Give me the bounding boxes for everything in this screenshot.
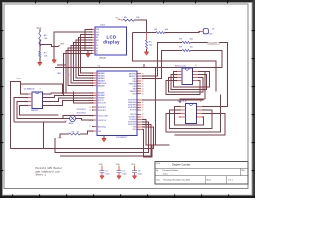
svg-text:<Doc>: <Doc> (163, 172, 169, 175)
svg-text:RB3/PGM: RB3/PGM (129, 83, 137, 85)
svg-text:RD3/PSP3: RD3/PSP3 (128, 122, 136, 124)
svg-text:VSS: VSS (98, 131, 101, 133)
svg-text:27: 27 (142, 110, 144, 112)
svg-text:100n: 100n (138, 174, 142, 176)
svg-text:35: 35 (142, 86, 144, 88)
svg-text:RD6/PSP6: RD6/PSP6 (128, 102, 136, 104)
svg-text:RC7/RX: RC7/RX (130, 110, 137, 112)
svg-text:X1: X1 (65, 121, 67, 123)
svg-text:D4: D4 (96, 45, 98, 47)
svg-text:D1: D1 (212, 28, 214, 30)
svg-text:33: 33 (142, 91, 144, 93)
svg-text:Molex(1,2,4): Molex(1,2,4) (175, 65, 186, 67)
svg-text:VDD: VDD (131, 164, 136, 166)
svg-text:RC0/T1: RC0/T1 (98, 100, 104, 102)
svg-text:VEE: VEE (96, 34, 99, 36)
svg-text:OSC1/CLKIN: OSC1/CLKIN (98, 115, 108, 117)
svg-text:RS: RS (96, 37, 98, 39)
svg-text:RD4/PSP4: RD4/PSP4 (128, 107, 136, 109)
svg-text:100n: 100n (105, 174, 109, 176)
svg-text:C1: C1 (105, 171, 107, 173)
svg-text:RB1: RB1 (133, 88, 136, 90)
svg-text:RB2: RB2 (133, 86, 136, 88)
svg-text:RD7/PSP7: RD7/PSP7 (128, 100, 136, 102)
svg-text:D5: D5 (96, 48, 98, 50)
svg-text:4MHz: 4MHz (69, 123, 74, 125)
svg-text:C3: C3 (138, 171, 140, 173)
svg-text:32: 32 (142, 93, 144, 95)
svg-text:U5 MAX232: U5 MAX232 (24, 88, 36, 91)
svg-text:E: E (96, 42, 97, 44)
svg-text:1 of 1: 1 of 1 (228, 179, 233, 181)
svg-text:Sheet 1: Sheet 1 (36, 174, 47, 177)
svg-text:4: 4 (177, 117, 178, 119)
svg-text:25: 25 (142, 117, 144, 119)
svg-text:RC1/CCP2: RC1/CCP2 (98, 103, 106, 105)
svg-text:D6: D6 (96, 50, 98, 52)
svg-text:Date:: Date: (156, 178, 161, 181)
svg-text:Degree Counter: Degree Counter (172, 163, 191, 167)
svg-text:13: 13 (89, 107, 91, 109)
svg-text:14: 14 (89, 110, 91, 112)
svg-text:RB0/INT: RB0/INT (130, 91, 136, 93)
svg-text:PIC16F877: PIC16F877 (116, 137, 128, 139)
svg-text:Sheet: Sheet (207, 178, 212, 181)
svg-text:RB5: RB5 (133, 78, 136, 80)
svg-text:display: display (103, 40, 120, 45)
svg-text:8: 8 (40, 89, 41, 91)
svg-text:Comm: Comm (16, 78, 22, 80)
svg-text:Sens (1,2): Sens (1,2) (178, 101, 188, 103)
svg-text:RC5/SDO: RC5/SDO (129, 117, 137, 119)
svg-text:17: 17 (89, 126, 91, 128)
svg-text:100n: 100n (122, 174, 126, 176)
svg-text:J3: J3 (200, 101, 202, 103)
svg-text:40: 40 (142, 73, 144, 75)
svg-text:37: 37 (142, 81, 144, 83)
svg-text:26: 26 (142, 114, 144, 116)
svg-text:Thursday, November 16, 2006: Thursday, November 16, 2006 (163, 180, 191, 182)
svg-text:By: By (156, 170, 158, 172)
svg-text:RC6/TX/CK: RC6/TX/CK (77, 113, 87, 115)
svg-text:RD5/PSP5: RD5/PSP5 (128, 105, 136, 107)
svg-text:29: 29 (142, 105, 144, 107)
svg-text:RC4/SDI: RC4/SDI (130, 119, 137, 121)
svg-text:D7: D7 (96, 53, 98, 55)
svg-text:36: 36 (142, 83, 144, 85)
svg-text:RB7/PGD: RB7/PGD (129, 73, 137, 75)
svg-text:VSS: VSS (96, 29, 99, 31)
svg-text:RB4: RB4 (133, 81, 136, 83)
svg-text:34: 34 (142, 88, 144, 90)
svg-text:RC7/RX/DT: RC7/RX/DT (77, 109, 87, 111)
svg-text:RB6/PGC: RB6/PGC (129, 76, 137, 78)
svg-text:30: 30 (142, 102, 144, 104)
svg-text:LCD1: LCD1 (100, 25, 106, 27)
svg-text:RC6/TX: RC6/TX (130, 114, 137, 116)
svg-text:VDD: VDD (99, 164, 104, 166)
svg-text:FILE:: FILE: (156, 163, 161, 165)
svg-text:J2: J2 (195, 65, 197, 67)
svg-text:VSS: VSS (133, 127, 136, 129)
svg-text:RD1/PSP1: RD1/PSP1 (98, 110, 106, 112)
svg-text:OSC2/CLK: OSC2/CLK (98, 120, 107, 122)
svg-text:28: 28 (142, 107, 144, 109)
svg-text:SER232: SER232 (31, 110, 38, 112)
svg-text:MCLR/Vpp: MCLR/Vpp (98, 126, 106, 128)
svg-text:RD2/PSP2: RD2/PSP2 (128, 124, 136, 126)
svg-text:LM016L: LM016L (99, 57, 107, 59)
svg-text:VDD: VDD (116, 164, 121, 166)
svg-text:Document Number: Document Number (163, 169, 179, 172)
svg-text:VCC: VCC (37, 28, 42, 30)
svg-text:RD0/PSP0: RD0/PSP0 (98, 107, 106, 109)
svg-text:C2: C2 (122, 171, 124, 173)
svg-text:RN1: RN1 (57, 73, 61, 75)
